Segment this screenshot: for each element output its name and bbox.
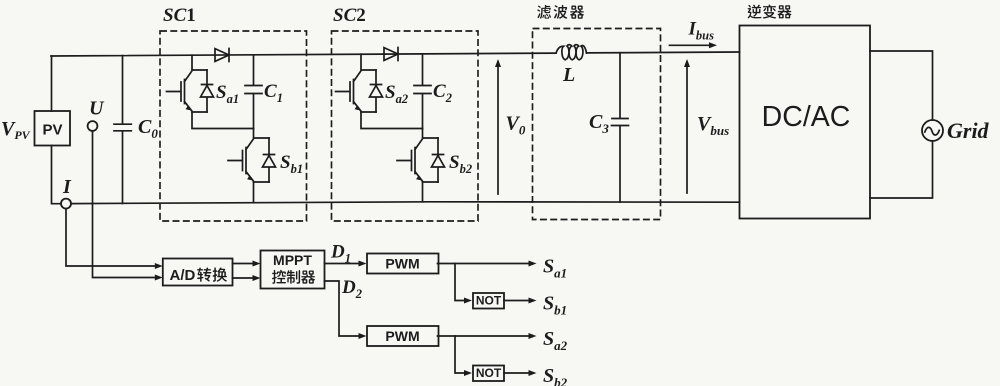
SC2 dashed box [332, 31, 479, 221]
svg-text:Grid: Grid [947, 118, 990, 143]
svg-text:SC1: SC1 [163, 5, 196, 26]
capacitor C0 [114, 56, 131, 204]
AC source grid symbol [922, 120, 943, 141]
svg-text:NOT: NOT [476, 294, 502, 308]
wire PV left drop [52, 56, 62, 204]
wire inverter to grid bottom [870, 141, 933, 198]
arrow U into AD [155, 275, 163, 281]
wire D1 to PWM1 [325, 263, 363, 265]
wire PWM out to S_a2 [438, 335, 533, 337]
wire NOT out to S_b2 [504, 372, 533, 374]
SC1 dashed box [160, 31, 307, 221]
svg-text:U: U [89, 98, 105, 120]
capacitor C2 [414, 54, 431, 129]
svg-text:PV: PV [42, 122, 62, 139]
arrow V_bus measurement [686, 62, 688, 193]
capacitor C3 [612, 53, 629, 202]
transistor S_a2 IGBT [336, 54, 377, 112]
wire S_a1 emitter to C1 bottom [192, 112, 254, 129]
inverter DC/AC box [740, 26, 871, 219]
diode S_a1 antiparallel [201, 70, 214, 112]
diode SC1 series [215, 49, 229, 62]
inductor L [556, 45, 587, 60]
wire S_b2 emitter to bottom bus [422, 182, 424, 202]
wire S_a2 emitter to C2 bottom [361, 112, 423, 129]
arrow I_bus [670, 44, 714, 46]
wire S_b1 emitter to bottom bus [253, 182, 255, 203]
diode S_b2 antiparallel [432, 138, 445, 182]
svg-text:NOT: NOT [476, 366, 502, 380]
wire NOT out to S_b1 [504, 300, 533, 302]
svg-text:SC2: SC2 [333, 5, 366, 26]
transistor S_b1 IGBT [228, 129, 269, 183]
label controller (Chinese) [272, 270, 286, 284]
NOT gate box [473, 293, 504, 309]
diode SC2 series [384, 48, 398, 61]
diode S_a2 antiparallel [370, 70, 383, 112]
PWM box [367, 326, 439, 346]
label filter (Chinese) [537, 5, 551, 19]
svg-text:L: L [562, 64, 575, 86]
label inverter (Chinese) [748, 5, 762, 19]
arrow I into AD [155, 263, 163, 269]
wire PWM out to S_a1 [438, 263, 533, 265]
A/D converter box [163, 259, 233, 286]
current sensor I node [61, 199, 71, 209]
wire U sense drop [93, 131, 160, 278]
PV source box [35, 111, 71, 146]
svg-text:MPPT: MPPT [273, 252, 312, 268]
svg-text:I: I [62, 176, 72, 198]
NOT gate box [473, 366, 504, 382]
wire I sense drop [66, 209, 159, 266]
svg-text:DC/AC: DC/AC [762, 101, 851, 133]
svg-text:PWM: PWM [385, 256, 419, 272]
transistor S_b2 IGBT [397, 129, 438, 183]
wire top bus [51, 52, 740, 56]
wire branch to NOT [455, 336, 468, 373]
PWM box [367, 254, 439, 274]
svg-text:PWM: PWM [385, 328, 419, 344]
wire D2 to PWM2 [325, 281, 363, 336]
wire AD to MPPT upper [233, 263, 258, 265]
voltage sense node U [88, 121, 98, 131]
diode S_b1 antiparallel [263, 138, 276, 182]
wire bottom bus [71, 202, 740, 204]
wire AD to MPPT lower [233, 277, 258, 279]
filter dashed box [533, 29, 661, 220]
transistor S_a1 IGBT [167, 55, 208, 112]
capacitor C1 [245, 55, 262, 129]
svg-text:A/D: A/D [170, 267, 196, 284]
wire branch to NOT [455, 264, 468, 301]
wire inverter to grid top [870, 51, 933, 120]
MPPT controller box [261, 251, 325, 289]
arrow V0 measurement [497, 62, 499, 194]
